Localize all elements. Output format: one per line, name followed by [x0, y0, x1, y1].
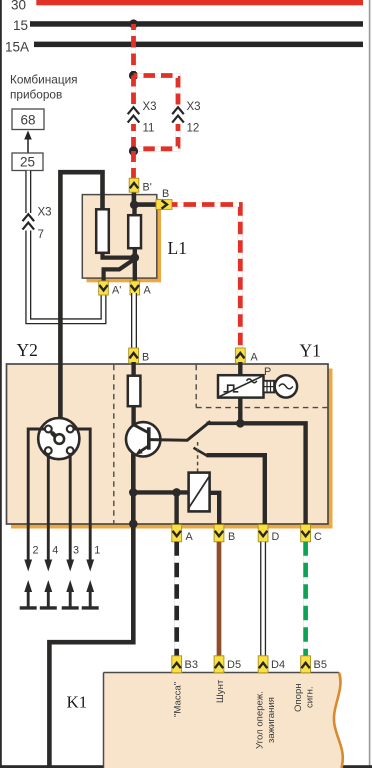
node P output [236, 419, 245, 428]
wire junction to relay coil [133, 490, 189, 494]
bus 30 [36, 0, 363, 5]
svg-text:1: 1 [94, 545, 100, 557]
distributor terminal 1 circle [67, 426, 74, 433]
svg-text:7: 7 [38, 229, 44, 241]
ground wire through housing [49, 492, 133, 765]
coil L1 housing [82, 195, 157, 279]
box Y2/Y1 housing shadow [11, 369, 333, 529]
svg-text:25: 25 [20, 155, 35, 170]
spark gap 4 [44, 580, 52, 592]
branch to terminal A' [104, 258, 137, 282]
svg-text:Опорн: Опорн [293, 683, 304, 712]
wire red-white right branch top run [134, 76, 179, 105]
svg-text:сигн.: сигн. [305, 686, 316, 708]
page left border [0, 0, 2, 768]
wire red-white bus15 to split node [131, 24, 136, 76]
svg-text:4: 4 [52, 545, 58, 557]
svg-text:P: P [264, 366, 271, 378]
svg-text:15A: 15A [5, 40, 29, 55]
gauge block 68 [12, 109, 44, 130]
svg-text:B: B [142, 352, 149, 364]
emitter wire down [131, 454, 136, 495]
spark gap 1 [86, 580, 94, 592]
connector X3 pin 11 chevrons [128, 107, 140, 122]
terminal C of Y box [301, 525, 311, 542]
svg-text:B5: B5 [314, 659, 327, 671]
bus 15 [30, 21, 363, 27]
ballast resistor [128, 376, 141, 407]
wire plug 1 [74, 429, 90, 560]
terminal D of Y box [258, 525, 268, 542]
svg-text:B: B [228, 531, 235, 543]
coil L1 housing shadow [87, 199, 162, 282]
terminal A of Y1 [235, 348, 245, 363]
primary winding [128, 215, 141, 248]
svg-text:Комбинация: Комбинация [10, 73, 78, 87]
terminal A' [99, 281, 109, 295]
distributor terminal 3 circle [67, 447, 74, 454]
connector X3 pin 12 chevrons [172, 107, 184, 122]
wire B' into L1 [132, 190, 137, 206]
terminal D4 [258, 656, 268, 673]
white wire L1 A to Y2 B [131, 293, 137, 350]
sensor lamp circle [275, 375, 297, 397]
switch lower contact [194, 448, 208, 456]
high voltage wire L1 to distributor [60, 172, 102, 435]
connector X3 pin 7 chevrons [23, 214, 35, 229]
bus 15A [34, 42, 363, 48]
wire brown B to D5 [217, 542, 222, 657]
svg-text:Y1: Y1 [300, 341, 321, 361]
terminal A of Y box [172, 525, 182, 542]
terminal B' [129, 178, 139, 192]
controller K1 torn edge [334, 673, 343, 768]
svg-text:D: D [272, 531, 280, 543]
relay coil [189, 473, 210, 512]
white wire 25 to X3-7 [25, 171, 31, 213]
svg-text:Y2: Y2 [17, 340, 38, 360]
wire red-white to B' [131, 151, 136, 179]
switch upper contact wire [207, 421, 241, 425]
node housing bottom [129, 520, 138, 529]
wire plug 2 [28, 429, 45, 560]
controller K1 housing [104, 673, 343, 768]
svg-text:11: 11 [143, 123, 155, 135]
wire B to ballast resistor [131, 362, 135, 377]
svg-text:C: C [314, 531, 322, 543]
wire red-white B to Y1 A [172, 205, 240, 350]
terminal B5 [301, 656, 311, 673]
white wire loop X3-7 to A' [28, 231, 103, 322]
node L1 bottom [131, 253, 140, 262]
wire plug 4 [47, 454, 50, 560]
wire plug 3 [69, 454, 72, 560]
svg-text:A: A [144, 285, 152, 297]
node split bottom [129, 146, 138, 155]
svg-text:X3: X3 [38, 207, 52, 219]
rotor center electrode [55, 434, 65, 444]
wire green-white C to B5 [303, 542, 308, 657]
wire coil to terminal B [210, 493, 220, 527]
sensor plug grid [264, 381, 275, 393]
switch contact arm [187, 421, 211, 441]
primary winding lower lead [133, 247, 137, 282]
terminal A of L1 [130, 281, 140, 295]
svg-text:Угол опереж.: Угол опереж. [254, 691, 265, 749]
wire node to terminal C [240, 423, 305, 527]
svg-text:X3: X3 [187, 101, 201, 113]
box Y2/Y1 housing [7, 364, 329, 524]
secondary winding [96, 209, 109, 253]
wire black-white A to B3 [174, 542, 179, 657]
wire red-white right branch bottom run [138, 124, 178, 149]
svg-text:приборов: приборов [10, 88, 62, 102]
arrow 25 to 68 [27, 137, 29, 153]
spark gap 2 [24, 580, 32, 592]
page right border [369, 0, 371, 768]
svg-text:L1: L1 [168, 238, 187, 258]
svg-text:Шунт: Шунт [215, 679, 226, 703]
transistor base lead [150, 438, 187, 442]
svg-text:B': B' [143, 182, 152, 194]
svg-text:30: 30 [11, 0, 26, 13]
sensor P converter box [218, 375, 264, 397]
svg-text:K1: K1 [67, 693, 88, 712]
node on bus 15 [129, 19, 138, 28]
svg-text:68: 68 [20, 113, 35, 128]
svg-text:2: 2 [33, 545, 39, 557]
svg-text:3: 3 [73, 545, 79, 557]
distributor terminal 4 circle [45, 447, 52, 454]
terminal D5 [214, 656, 224, 673]
svg-text:зажигания: зажигания [266, 697, 277, 743]
node emitter junction [129, 488, 138, 497]
node terminal A branch [172, 488, 181, 497]
wire white D to D4 [260, 542, 266, 657]
svg-text:12: 12 [187, 123, 200, 135]
wire resistor to transistor [131, 406, 135, 426]
wire sensor to node [238, 396, 242, 424]
spark gap 3 [66, 580, 74, 592]
page bottom border [0, 765, 372, 768]
terminal B of Y box [214, 525, 224, 542]
distributor terminal 2 circle [45, 426, 52, 433]
gauge block 25 [12, 153, 43, 171]
terminal B of L1 [156, 200, 172, 210]
rotor arm [53, 433, 58, 438]
svg-text:"Масса": "Масса" [172, 682, 183, 717]
wire red-white left branch upper [131, 76, 136, 105]
wire Y1 A to sensor P [238, 362, 242, 377]
wire node to terminal A [174, 492, 178, 527]
wire node to terminal B [134, 202, 159, 207]
dashed divider inside Y2 [113, 365, 115, 524]
mechanical link dashed [197, 442, 199, 472]
svg-text:A': A' [112, 285, 121, 297]
svg-text:D5: D5 [227, 659, 241, 671]
wire node to primary winding [132, 205, 136, 216]
svg-text:B3: B3 [185, 659, 198, 671]
secondary winding bottom link [103, 252, 134, 258]
svg-text:A: A [251, 352, 259, 364]
svg-text:B: B [162, 188, 169, 200]
terminal B of Y2 [129, 348, 139, 363]
svg-text:15: 15 [13, 18, 28, 33]
terminal B3 [172, 656, 182, 673]
wire lower contact to terminal D [207, 455, 265, 527]
wire red-white left branch lower [131, 124, 136, 151]
svg-text:X3: X3 [143, 101, 157, 113]
transistor VT [126, 422, 160, 456]
node L1 top [130, 201, 139, 210]
distributor rotor circle [38, 418, 79, 459]
svg-text:A: A [186, 531, 194, 543]
dashed boundary of sensor P compartment [196, 365, 328, 408]
svg-text:D4: D4 [271, 659, 285, 671]
node split top [129, 71, 138, 80]
